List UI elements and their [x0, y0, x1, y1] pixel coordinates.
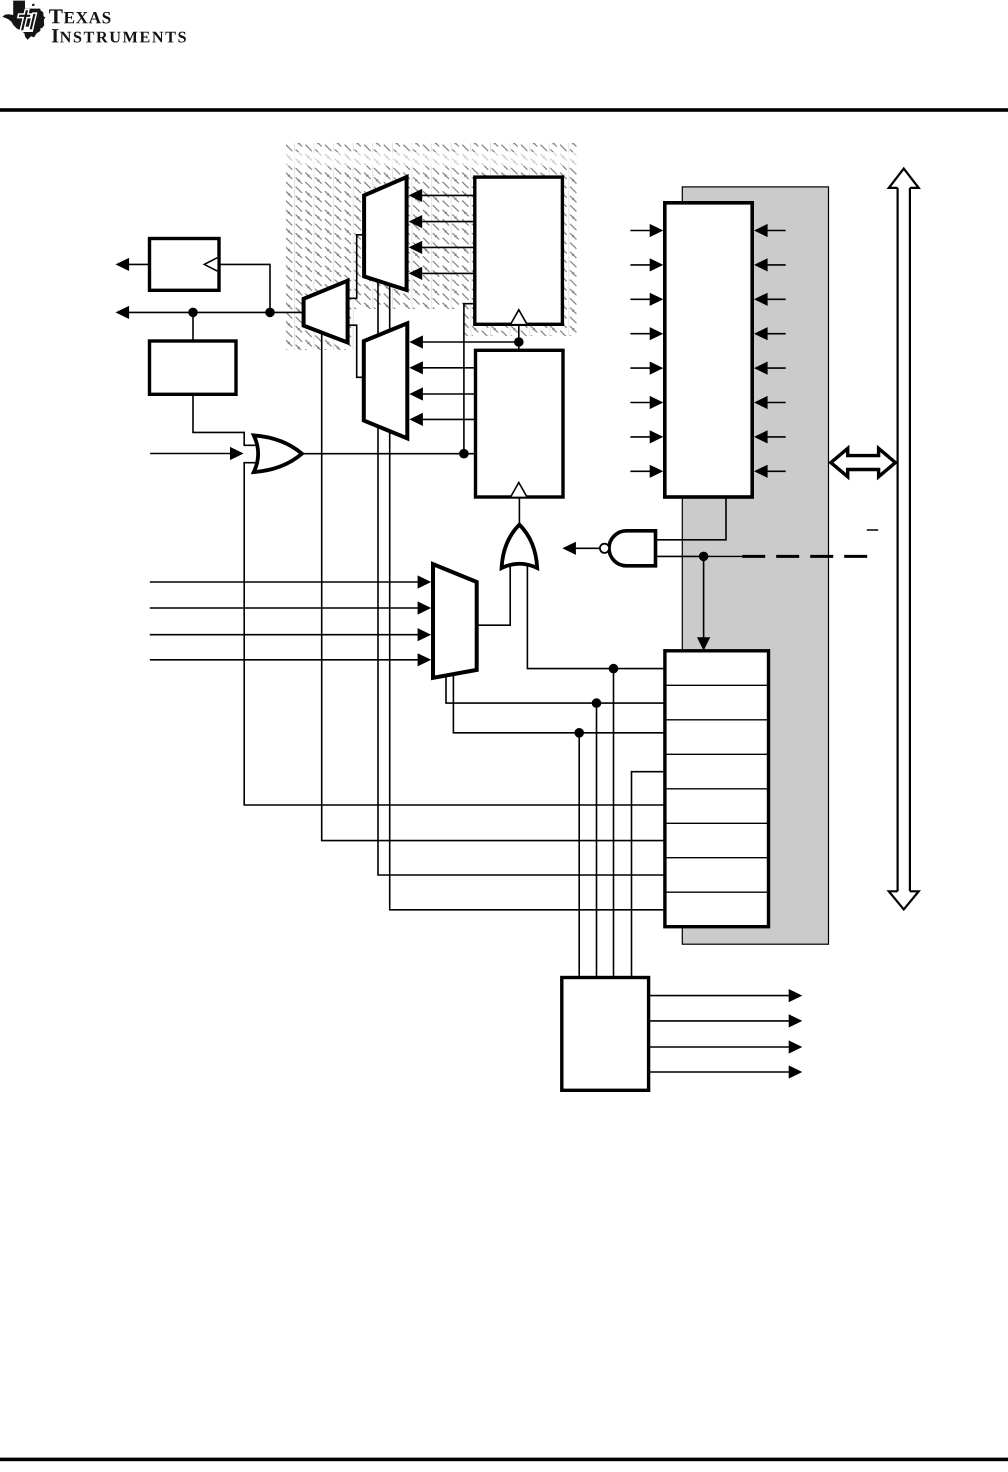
mux M3 — [364, 323, 408, 438]
SHAPES — [150, 177, 769, 1090]
arrows into mux M3 — [409, 335, 423, 348]
control block right pin arrowheads — [754, 224, 768, 237]
interrupt box output lines — [649, 995, 790, 997]
arrow into register file top — [697, 637, 710, 651]
control/status block — [665, 203, 752, 497]
wire: register R1 clock node down to register R2 — [518, 324, 520, 350]
wire: mux M4 select b to register file row 3 — [453, 674, 665, 733]
register file block — [665, 651, 769, 927]
wire: external input to or-gate G1 middle — [150, 453, 230, 455]
nand gate G3 output arrow — [562, 542, 576, 555]
wire: nand gate G3 output — [576, 547, 600, 549]
wire: control block bottom to nand gate G3 top input — [656, 497, 727, 540]
arrows into mux M1 — [409, 189, 423, 202]
or-gate G2 (vertical) — [502, 525, 538, 568]
nand gate G3 bubble — [600, 544, 609, 553]
gray peripheral bus region — [682, 187, 828, 944]
wire: mux M1 select b down to register file row 8 — [390, 284, 665, 910]
wire: or-gate G1 bottom input down to register file row 5 — [244, 463, 665, 805]
wire: pin arrow out of block A — [128, 263, 150, 265]
wire: block B bottom to or-gate G1 top input — [193, 394, 262, 445]
wire: register file row 4 down to interrupt box — [632, 772, 665, 978]
clock notch of block A — [204, 258, 217, 271]
wire: mux M1 output to mux M2 upper input — [348, 235, 365, 298]
hatched background region (lower right) — [463, 309, 579, 336]
wire: row 3 junction down to interrupt box — [578, 733, 580, 978]
control block right pin arrows — [767, 230, 786, 232]
bottom rule — [0, 1458, 1008, 1462]
hatched background region (lower left) — [286, 309, 354, 350]
control block left pin arrowheads — [650, 224, 664, 237]
hatched background region (upper) — [286, 143, 579, 309]
junction dots — [188, 308, 708, 738]
nand gate G3 (facing left) — [609, 531, 656, 566]
pin arrow left of block A — [116, 258, 130, 271]
block A (output buffer with clock notch) — [150, 239, 220, 291]
register R1 — [475, 177, 563, 324]
wire: or-gate G1 output to register R2 — [302, 453, 476, 455]
or-gate G1 — [254, 435, 302, 472]
interrupt box — [562, 978, 649, 1091]
block B — [150, 341, 237, 394]
wire: solid lead of dashed net — [704, 555, 743, 557]
dashed wire to bus — [742, 555, 867, 558]
register file internal row lines — [667, 685, 768, 892]
interrupt output arrowheads — [789, 989, 803, 1002]
wire: mux M4 select a to register file row 2 — [446, 675, 665, 703]
clock triangle of register R2 — [511, 483, 527, 497]
arrowheads — [116, 189, 803, 1079]
wire: mux M2 select down to register file row 6 — [322, 332, 665, 841]
arrows into mux M4 — [418, 575, 432, 588]
mux M4 (4-input) — [433, 564, 477, 678]
clock triangle of register R1 — [511, 310, 527, 324]
overbar tick of removed signal name — [867, 529, 878, 531]
wire: TXD net from mux M2 output to left pin — [128, 311, 304, 313]
mux M2 (small TXD mux) — [304, 281, 348, 343]
wire: register R1 output lines to mux M1 inputs — [421, 194, 475, 196]
lighter first band of hatch — [285, 152, 580, 166]
wire: or-gate G2 output up to register R2 clock — [518, 497, 520, 526]
top rule — [0, 108, 1008, 112]
TI logo bug (Texas silhouette) — [2, 1, 45, 40]
wire: mux M4 output to or-gate G2 left input — [477, 560, 511, 625]
wire: or-gate G2 right input down to register file row 1 — [527, 560, 665, 669]
wire: junction up to register R1 lower-left pin — [464, 304, 475, 454]
TI logo wordmark TEXAS INSTRUMENTS — [49, 9, 186, 42]
wire: register R2 outputs to mux M3 inputs — [421, 367, 475, 369]
pin arrow TXD — [116, 306, 130, 319]
wire: block A right to TXD node — [219, 264, 270, 312]
wire: nand gate G3 bottom input to junction — [656, 555, 704, 557]
mux M1 — [364, 177, 407, 290]
wire: junction down to register file top (arrow) — [703, 556, 705, 638]
wire: node to block B top — [192, 312, 194, 341]
wire: mux M1 select a down to register file row 7 — [378, 280, 665, 875]
vertical peripheral bus double arrow — [889, 169, 919, 910]
wire: row 2 junction down to interrupt box — [596, 703, 598, 977]
wire: external input lines to mux M4 — [150, 581, 418, 583]
control block left pin arrows — [630, 231, 789, 1073]
arrow into or-gate G1 — [230, 447, 244, 460]
wire: row 1 junction down to interrupt box — [613, 669, 615, 978]
register R2 — [476, 350, 564, 497]
wire: mux M3 output to mux M2 lower input — [348, 325, 364, 377]
wire: node to mux M3 top input — [421, 341, 519, 343]
horizontal bus double arrow — [831, 448, 896, 476]
